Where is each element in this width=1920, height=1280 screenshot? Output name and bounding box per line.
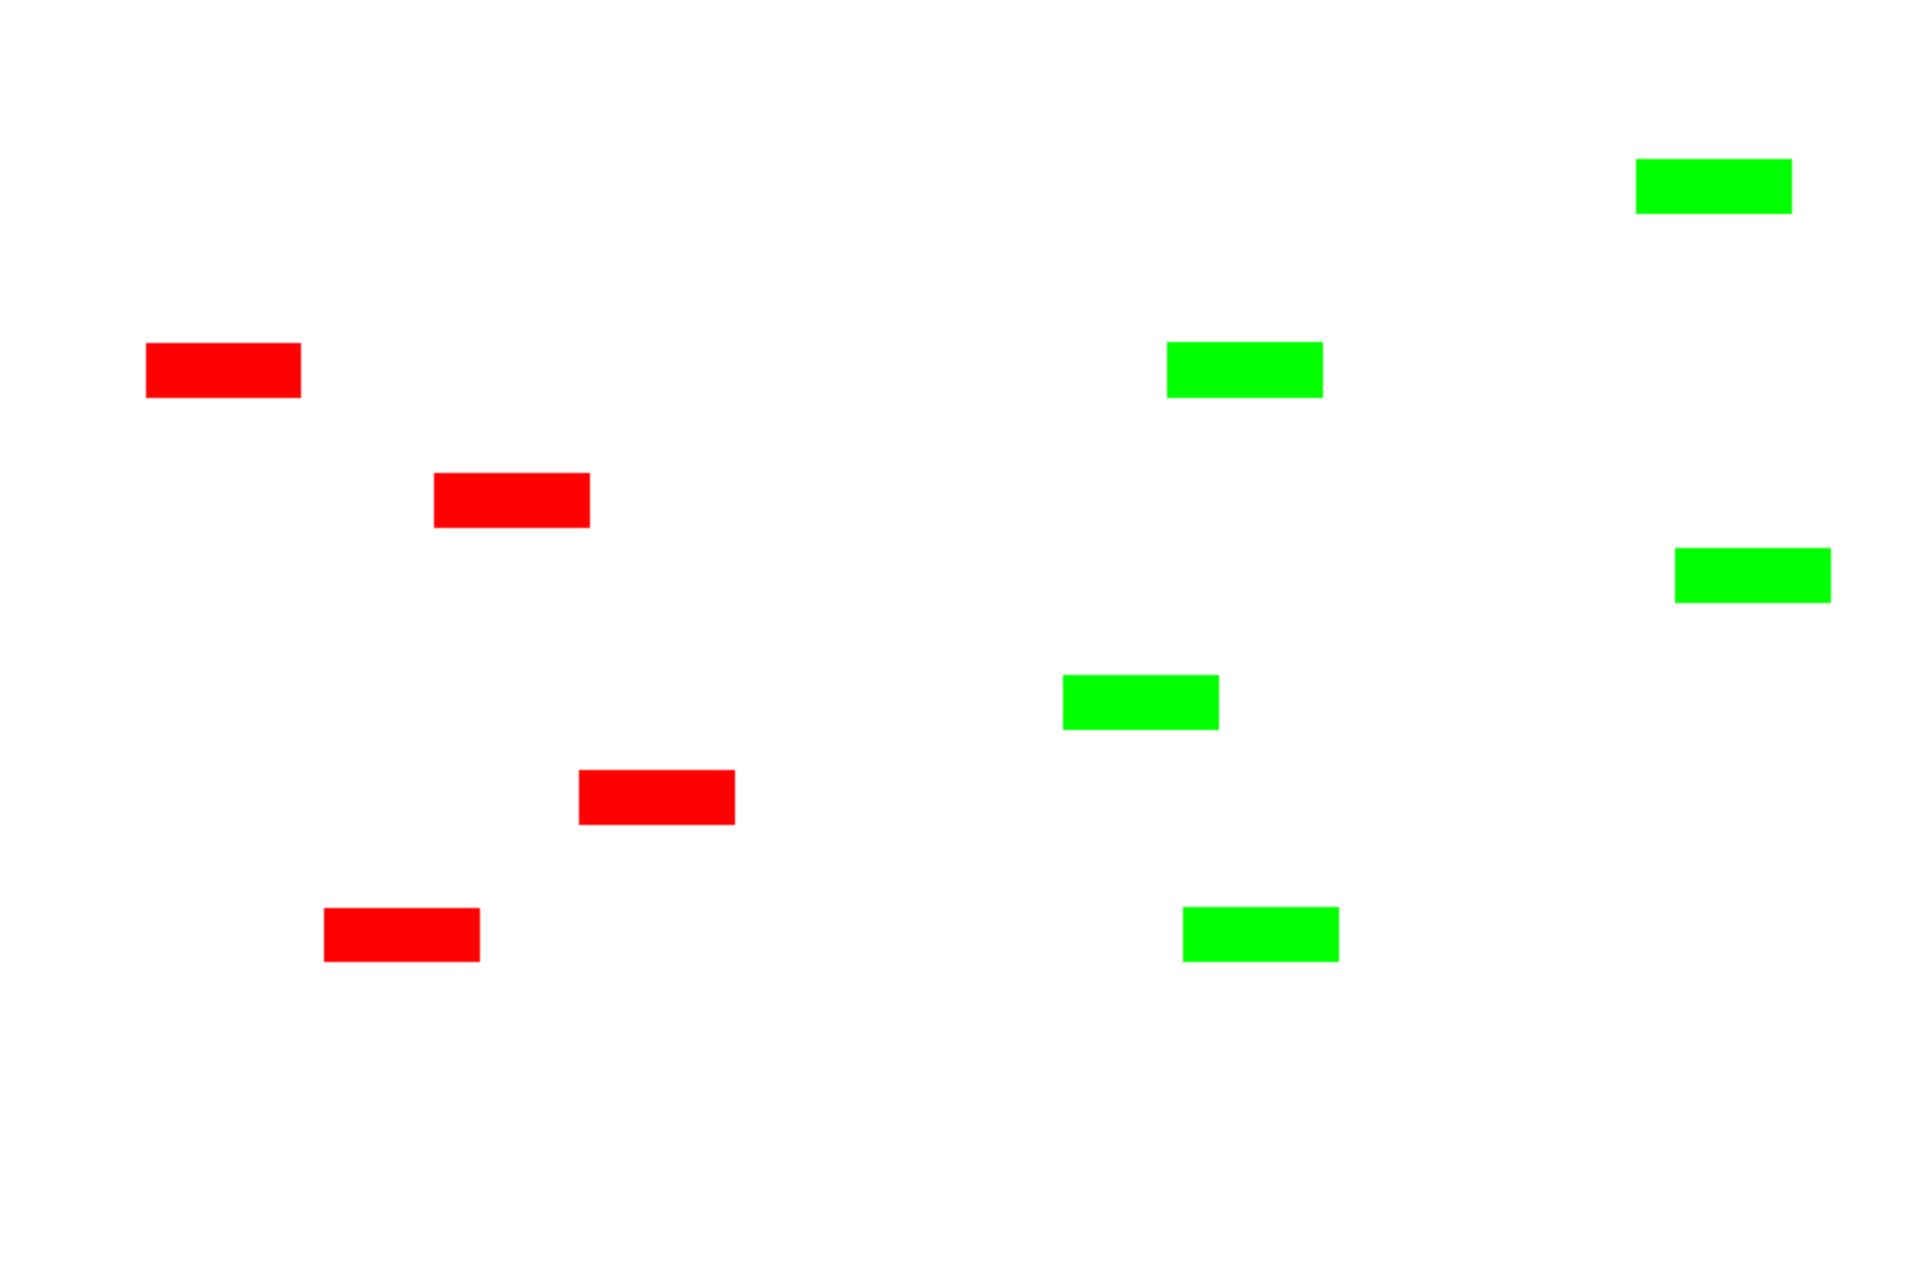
red rectangle 7 (center left) — [579, 770, 735, 825]
red rectangle 8 (lower left) — [324, 908, 480, 962]
green rectangle 6 (center right) — [1063, 675, 1219, 730]
red rectangle 4 (left of center) — [434, 473, 590, 528]
green rectangle 3 (upper middle-right) — [1167, 342, 1323, 398]
green rectangle 9 (lower middle-right) — [1183, 907, 1339, 962]
red rectangle 2 (upper left) — [146, 343, 301, 398]
green rectangle 5 (right side) — [1675, 548, 1831, 603]
green rectangle 1 (top right) — [1636, 159, 1792, 214]
